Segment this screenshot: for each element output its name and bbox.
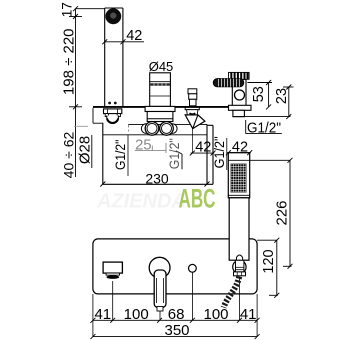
svg-text:100: 100 — [124, 306, 149, 323]
svg-text:ABC: ABC — [179, 184, 216, 214]
svg-text:230: 230 — [145, 170, 169, 186]
svg-text:42: 42 — [195, 140, 211, 156]
svg-text:40 ÷ 62: 40 ÷ 62 — [61, 131, 77, 178]
svg-text:G1/2": G1/2" — [211, 136, 227, 168]
svg-text:226: 226 — [274, 200, 291, 225]
svg-text:42: 42 — [232, 139, 248, 155]
svg-text:17: 17 — [60, 2, 75, 17]
svg-text:25: 25 — [135, 137, 152, 154]
svg-text:G1/2": G1/2" — [166, 138, 182, 169]
svg-text:G1/2": G1/2" — [113, 139, 128, 170]
svg-text:G1/2": G1/2" — [247, 120, 281, 136]
svg-text:Ø28: Ø28 — [76, 136, 93, 164]
svg-text:198 ÷ 220: 198 ÷ 220 — [61, 28, 78, 95]
svg-text:41: 41 — [94, 306, 111, 323]
svg-text:68: 68 — [168, 306, 185, 323]
svg-text:100: 100 — [203, 306, 228, 323]
svg-text:Ø45: Ø45 — [149, 59, 174, 74]
svg-text:23: 23 — [274, 88, 290, 104]
svg-text:AZIENDA: AZIENDA — [96, 191, 186, 213]
svg-text:42: 42 — [126, 28, 142, 44]
svg-text:350: 350 — [164, 322, 189, 339]
svg-text:120: 120 — [261, 249, 277, 273]
svg-text:53: 53 — [251, 86, 267, 102]
svg-text:41: 41 — [240, 306, 257, 323]
